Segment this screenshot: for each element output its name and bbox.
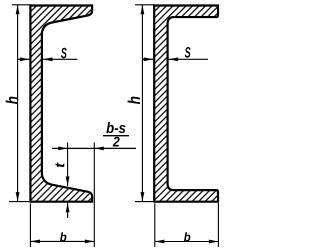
dimension S (right): left segment with arrow: [142, 58, 153, 60]
channel section U1 (tapered flanges, left): [30, 6, 92, 202]
dimension h (right): top extension line: [135, 4, 155, 6]
dimension h (right): top arrowhead: [141, 5, 145, 15]
label t: [55, 162, 64, 167]
label h (right): [128, 97, 140, 105]
dimension h (left): top extension line: [12, 4, 31, 6]
dimension (b-s)/2: right arrowhead (outside, pointing left): [94, 147, 104, 151]
dimension (b-s)/2: left arrowhead (outside, pointing right): [58, 147, 68, 151]
dimension b (right): left arrowhead: [155, 240, 165, 244]
dimension h (right): bottom arrowhead: [141, 192, 145, 202]
dimension t: lower segment with arrow: [67, 203, 69, 218]
dimension h (left): dimension line: [17, 5, 19, 202]
label b (right): [184, 232, 190, 241]
dimension h (left): bottom extension line: [9, 201, 29, 203]
dimension (b-s)/2: right vertical extension line: [93, 143, 95, 248]
dimension b (left): left extension line: [29, 204, 31, 248]
label (b-s)/2 fraction bar: [103, 135, 129, 137]
dimension b (left): dimension line: [30, 240, 94, 242]
label (b-s)/2 denominator: [113, 137, 120, 147]
dimension b (left): right arrowhead: [85, 240, 95, 244]
dimension h (right): dimension line: [141, 5, 143, 202]
dimension (b-s)/2: dimension line: [52, 147, 136, 149]
dimension b (right): right arrowhead: [209, 240, 219, 244]
dimension h (right): bottom extension line: [135, 201, 153, 203]
dimension b (right): right extension line: [217, 203, 219, 247]
dimension b (left): left arrowhead: [30, 240, 40, 244]
label h (left): [6, 97, 18, 105]
channel section U2 (parallel flanges, right): [154, 6, 218, 202]
label b (left): [60, 232, 66, 241]
dimension b (right): left extension line: [154, 204, 156, 248]
dimension S (left): right segment with arrow: [43, 58, 78, 60]
label S (left): [61, 48, 67, 59]
label (b-s)/2 numerator: [106, 122, 125, 133]
dimension h (left): top arrowhead: [16, 5, 20, 15]
dimension S (left): left segment with arrow: [18, 58, 30, 60]
dimension (b-s)/2: left vertical extension / t dim line: [67, 143, 69, 187]
dimension S (right): right segment with arrow: [169, 58, 208, 60]
dimension b (right): dimension line: [155, 241, 219, 243]
dimension t: upper arrowhead (down, on flange top surface): [66, 177, 70, 187]
dimension h (left): bottom arrowhead: [16, 192, 20, 202]
label S (right): [185, 47, 191, 58]
